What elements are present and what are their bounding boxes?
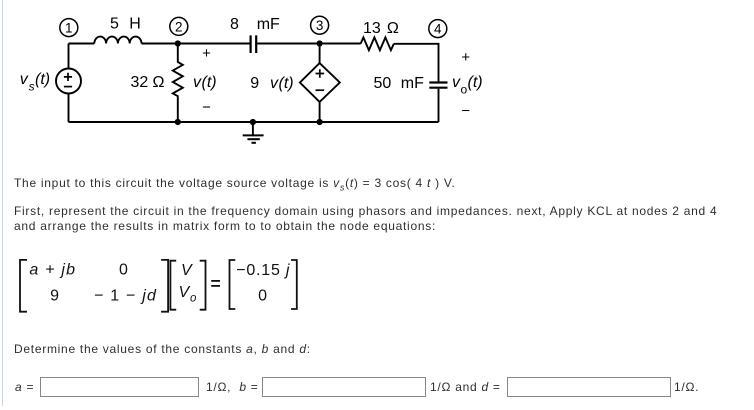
svg-text:−: −: [461, 103, 470, 120]
svg-text:(t): (t): [35, 71, 50, 88]
svg-text:−0.15 j: −0.15 j: [236, 262, 290, 279]
svg-text:4: 4: [434, 22, 442, 37]
paragraph 3: [14, 342, 311, 357]
svg-text:o: o: [461, 83, 468, 97]
svg-text:(t): (t): [279, 75, 294, 92]
junction dot ground: [250, 119, 256, 125]
wire top: capacitor C1 to node3 and resistor R2: [257, 43, 360, 45]
dependent source B1 diamond: [300, 63, 340, 102]
svg-text:V: V: [181, 262, 193, 279]
input box a: [40, 377, 199, 397]
svg-text:1: 1: [65, 21, 73, 36]
dependent source plus sign: [316, 69, 325, 78]
svg-text:9: 9: [250, 75, 259, 92]
wire right rail below C2: [438, 89, 440, 122]
svg-text:0: 0: [119, 262, 128, 279]
matrix 1 left bracket: [20, 260, 27, 312]
svg-text:32: 32: [131, 74, 149, 91]
svg-text:mF: mF: [257, 16, 280, 33]
dependent source minus sign: [316, 89, 325, 91]
svg-text:Ω: Ω: [387, 20, 399, 37]
voltage source plus sign: [64, 73, 72, 81]
svg-text:3: 3: [316, 18, 324, 33]
svg-text:+: +: [202, 45, 211, 62]
node circle label 1: [60, 19, 78, 37]
svg-text:(t): (t): [468, 74, 483, 91]
node circle label 4: [429, 20, 447, 38]
svg-text:V: V: [179, 284, 191, 301]
svg-text:13: 13: [363, 20, 381, 37]
svg-text:a + jb: a + jb: [29, 262, 76, 279]
svg-text:s: s: [29, 80, 35, 94]
matrix 3 right bracket: [291, 260, 297, 309]
paragraph 1: [14, 176, 456, 195]
circuit schematic: [0, 0, 510, 155]
panel left border: [2, 0, 3, 406]
resistor R1 32ohm vertical: [173, 44, 183, 123]
matrix 2 left bracket: [170, 261, 176, 310]
svg-text:v: v: [20, 71, 29, 88]
voltage source minus sign: [64, 86, 72, 88]
svg-text:5: 5: [110, 16, 119, 33]
paragraph 2: [14, 204, 717, 234]
answer row: [15, 380, 34, 395]
ground bar 2: [247, 138, 259, 140]
svg-text:2: 2: [175, 19, 183, 34]
wire top: node1 corner to inductor: [69, 43, 95, 45]
dependent source B1 wire below diamond: [319, 102, 321, 122]
svg-text:(t): (t): [202, 74, 217, 91]
junction dot node2 top: [175, 40, 181, 46]
wire top: resistor R2 to node4 corner: [394, 44, 439, 82]
junction dot node3 bottom: [317, 119, 323, 125]
inductor L1 5H: [94, 37, 141, 44]
wire top: inductor to capacitor C1: [142, 43, 250, 45]
equals sign: [211, 280, 220, 282]
svg-text:8: 8: [230, 16, 239, 33]
svg-text:− 1 − jd: − 1 − jd: [94, 287, 157, 304]
wire bottom rail: [69, 121, 439, 123]
matrix equation: [0, 250, 320, 320]
svg-text:H: H: [129, 16, 141, 33]
svg-text:o: o: [190, 293, 197, 305]
ground bar 3: [252, 142, 256, 144]
resistor R2 13ohm zigzag: [361, 37, 394, 50]
svg-text:50: 50: [374, 75, 392, 92]
wire left rail below source: [68, 94, 70, 123]
voltage source VS circle: [56, 69, 81, 94]
matrix 1 right bracket: [161, 260, 168, 312]
capacitor C2 50mF plates: [429, 83, 447, 88]
junction dot node2 bottom: [175, 119, 181, 125]
wire left rail above source: [68, 44, 70, 69]
ground stem: [252, 122, 254, 135]
node circle label 2: [170, 17, 188, 35]
input box b: [262, 377, 426, 397]
input box d: [507, 377, 671, 397]
svg-text:0: 0: [258, 287, 267, 304]
svg-text:mF: mF: [401, 75, 424, 92]
svg-text:−: −: [202, 99, 211, 116]
junction dot node3 top: [317, 40, 323, 46]
svg-text:Ω: Ω: [153, 74, 165, 91]
svg-text:9: 9: [50, 287, 59, 304]
matrix 3 left bracket: [230, 260, 236, 309]
matrix 2 right bracket: [200, 261, 206, 310]
ground bar 1: [243, 134, 264, 136]
dependent source B1 wire above diamond: [319, 44, 321, 64]
svg-text:+: +: [461, 49, 470, 66]
capacitor C1 8mF plates: [251, 35, 257, 53]
node circle label 3: [311, 16, 329, 34]
